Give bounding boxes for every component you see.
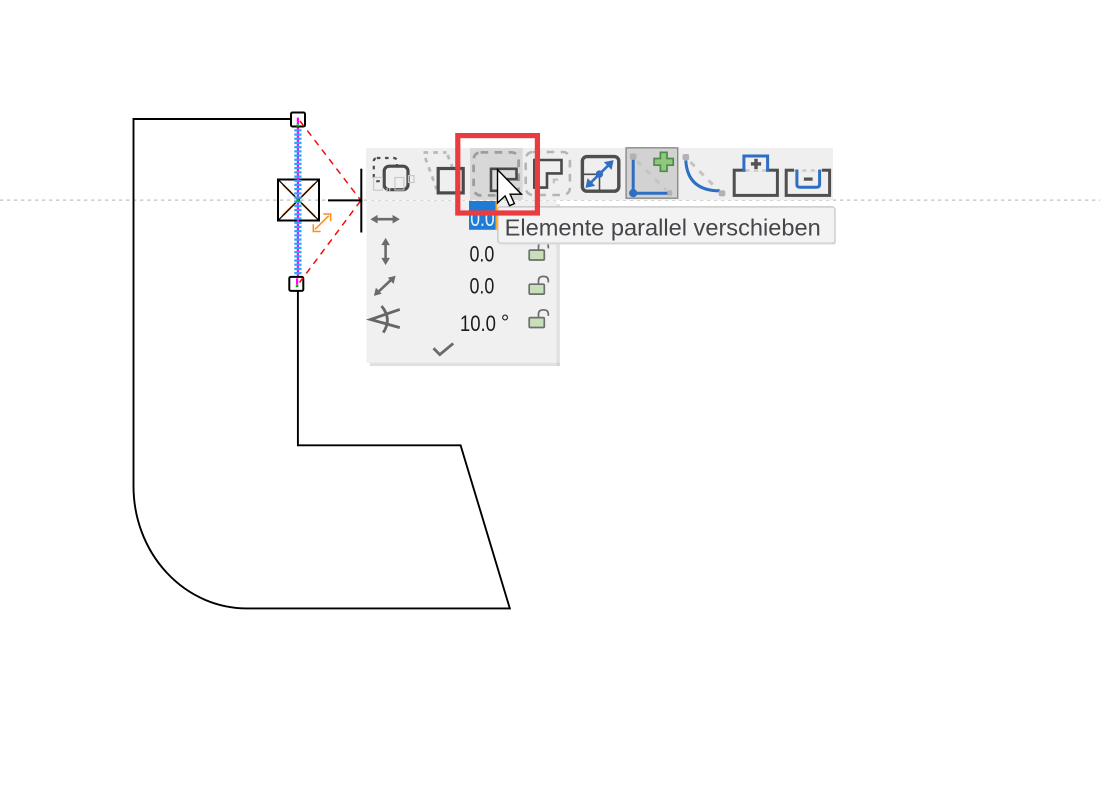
crosshair vertical	[360, 169, 362, 233]
tooltip shadow	[500, 209, 836, 244]
selected segment blue dash overlay	[294, 121, 301, 284]
X-box element symbol	[278, 180, 319, 221]
icon8 add-plus	[734, 156, 777, 195]
construction dotted line y=200	[0, 199, 1100, 201]
top handle green mark	[297, 124, 300, 126]
row5 check mark	[434, 343, 454, 354]
panel shadow right	[557, 204, 560, 366]
selected background icon6	[626, 148, 678, 198]
selected segment magenta core	[297, 119, 299, 284]
row1 selection blue box	[469, 201, 496, 230]
icon7 fillet-curve	[683, 154, 726, 196]
orange X marker under box	[282, 184, 315, 217]
svg-text:10.0: 10.0	[460, 311, 496, 336]
svg-text:Elemente parallel verschieben: Elemente parallel verschieben	[505, 215, 821, 241]
icon4 parallel-move-copy	[526, 152, 570, 195]
hover background icon3	[470, 148, 523, 200]
red dashed guide upper	[300, 121, 361, 200]
lock row3	[529, 276, 548, 294]
icon3 parallel-move-element (hovered)	[474, 152, 519, 195]
bottom handle inner mark	[296, 278, 298, 284]
top handle	[291, 113, 305, 127]
icon1 move-elements	[374, 158, 414, 192]
tooltip box	[498, 207, 835, 243]
mouse cursor	[498, 170, 522, 206]
shape outline polyline	[134, 119, 510, 608]
input panel background	[366, 201, 556, 363]
lock row4	[529, 310, 548, 328]
red dashed guide lower	[300, 201, 361, 283]
panel shadow bottom	[370, 363, 560, 366]
icon5 resize-scale	[582, 157, 618, 192]
row3 icon diagonal arrow	[374, 276, 396, 296]
red highlight rectangle	[458, 136, 538, 213]
crosshair horizontal	[328, 199, 362, 201]
svg-text:0.0: 0.0	[470, 273, 495, 298]
icon9 subtract-minus	[786, 170, 829, 196]
orange move arrow	[313, 214, 330, 232]
row2 icon vertical arrow	[381, 238, 390, 265]
lock row2	[529, 242, 548, 260]
row4 icon angle	[371, 306, 400, 333]
bottom handle	[289, 277, 303, 291]
icon6 fillet-corner (active)	[629, 152, 673, 197]
svg-text:°: °	[501, 311, 509, 334]
green snap mark center	[296, 199, 299, 202]
top handle inner mark	[297, 118, 299, 125]
row1 text caret	[495, 201, 497, 230]
toolbar background	[366, 148, 833, 200]
icon2 move-parallel-ghost	[424, 153, 464, 193]
bottom handle green mark	[296, 285, 299, 287]
svg-text:0.0: 0.0	[470, 242, 495, 267]
row1 icon horizontal arrow	[370, 215, 399, 224]
svg-text:0.0: 0.0	[470, 206, 494, 231]
